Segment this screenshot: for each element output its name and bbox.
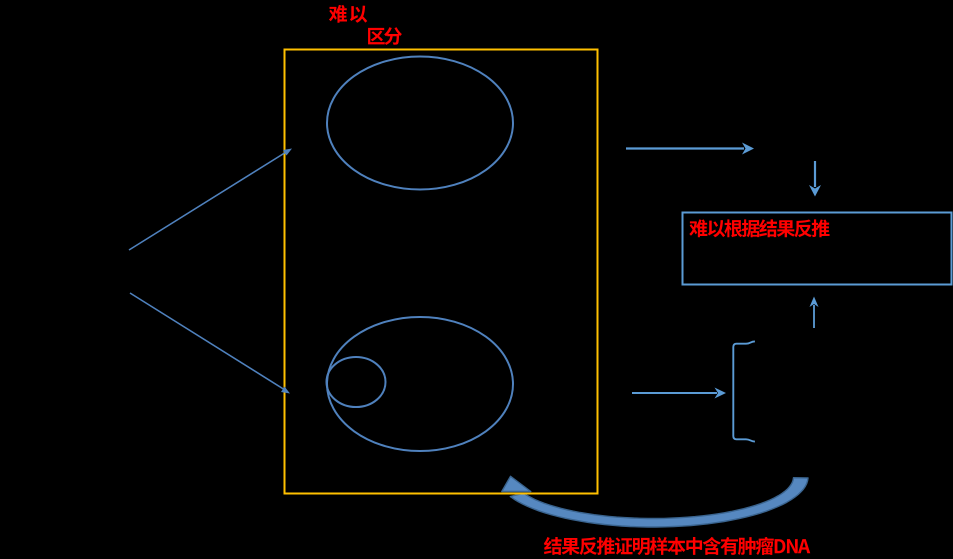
top ellipse <box>327 57 513 190</box>
bottom label "结果反推证明样本中含有肿瘤DNA" <box>544 537 810 555</box>
left square bracket <box>733 341 755 441</box>
upper diagonal arrow <box>129 149 292 251</box>
bottom horizontal arrow <box>632 388 726 399</box>
curved swoosh arrow (feedback) <box>502 476 808 527</box>
top horizontal arrow <box>626 143 754 155</box>
box label "难以根据结果反推" <box>689 219 829 237</box>
lower diagonal arrow <box>130 293 290 394</box>
label "难以 区分" <box>329 5 402 45</box>
result box <box>683 213 952 285</box>
vertical arrow down into box <box>809 161 821 197</box>
orange rectangle (container) <box>285 50 598 494</box>
small circle inside bottom ellipse <box>327 357 386 407</box>
vertical arrow up into box <box>810 297 819 329</box>
bottom ellipse <box>327 317 513 451</box>
